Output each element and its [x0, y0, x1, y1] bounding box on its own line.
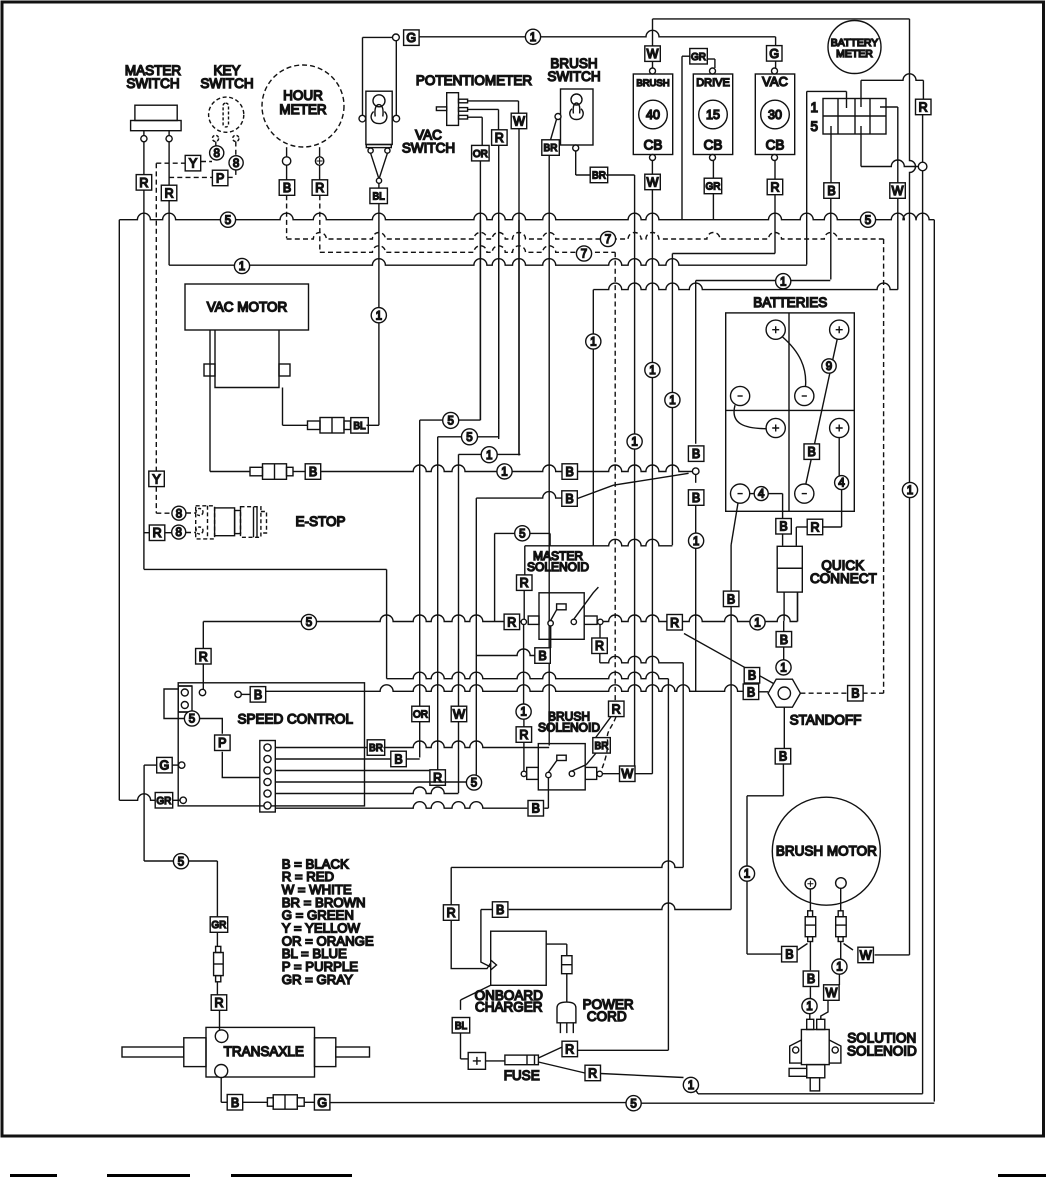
label R master left [136, 175, 152, 191]
wire G chain down to transaxle [143, 765, 145, 861]
circled 8 e-stop upper [172, 506, 186, 520]
label OR potentiometer [472, 145, 490, 161]
wire vac CB R down [774, 195, 776, 254]
label B standoff dashed [848, 686, 864, 702]
vac motor B wire [209, 330, 211, 472]
wire to G junction [363, 36, 393, 38]
svg-text:SOLENOID: SOLENOID [538, 721, 600, 735]
brush motor terminal plus [805, 878, 816, 889]
svg-text:B: B [808, 445, 816, 459]
battery series diagonal with 9 and B [806, 339, 837, 484]
label B master solenoid [535, 648, 551, 664]
label R right of master solenoid [667, 615, 683, 631]
svg-text:SOLENOID: SOLENOID [847, 1044, 917, 1059]
grid pin wire bottom cell 1 to B [830, 126, 832, 183]
speed control left jumper [164, 689, 184, 719]
brush solenoid terminal right [597, 771, 602, 776]
svg-text:R: R [507, 615, 516, 629]
junction circle B lines [692, 468, 699, 475]
label R below master solenoid [592, 638, 608, 654]
svg-text:R: R [588, 1066, 597, 1080]
grid pin wire top cell 4 to W [880, 106, 898, 108]
circled 1 quick connect line [750, 615, 765, 630]
svg-text:R: R [565, 1043, 574, 1057]
svg-text:HOUR: HOUR [283, 88, 323, 103]
label G speed control [157, 757, 173, 773]
transaxle terminal top [215, 1030, 228, 1043]
svg-text:7: 7 [605, 234, 611, 246]
svg-text:W: W [860, 949, 872, 963]
pin4 wire [275, 781, 467, 783]
battery jumper curve 2 [734, 405, 766, 429]
svg-text:CB: CB [766, 138, 785, 153]
wire W chain down to pin5 [458, 454, 460, 793]
wire battery B down to standoff line [695, 505, 697, 691]
master solenoid coil [557, 604, 567, 610]
circled 1 on battery B segment [776, 274, 791, 289]
wire W to solution solenoid [821, 1000, 828, 1019]
svg-text:4: 4 [838, 478, 845, 490]
label BR brush solenoid [593, 738, 611, 754]
label W below brush CB [645, 174, 661, 190]
hour meter terminal minus [282, 157, 290, 165]
inline connector vac motor B [250, 467, 263, 476]
label B lower line [562, 491, 578, 507]
svg-text:B: B [779, 520, 787, 534]
speed control R terminal [199, 689, 205, 695]
label Y key switch [185, 155, 201, 171]
dashed jog to terminal [601, 717, 616, 771]
svg-text:R: R [433, 771, 442, 785]
svg-text:1: 1 [806, 1001, 812, 1013]
pin3 wire [275, 770, 437, 772]
svg-text:30: 30 [768, 108, 782, 122]
inline connector transaxle [216, 946, 221, 952]
label R master solenoid left [504, 614, 519, 630]
hour meter terminal plus [315, 157, 323, 165]
label B solution feed [803, 971, 819, 987]
svg-text:R: R [495, 131, 504, 145]
svg-text:R: R [139, 176, 148, 190]
svg-text:40: 40 [646, 108, 660, 122]
svg-text:SWITCH: SWITCH [200, 76, 253, 91]
svg-text:TRANSAXLE: TRANSAXLE [224, 1044, 304, 1059]
wire brush CB W up [652, 19, 654, 46]
dashed wire to P box [228, 176, 236, 178]
svg-text:4: 4 [758, 489, 765, 501]
svg-text:R: R [519, 728, 528, 742]
master solenoid R lower chain [599, 625, 601, 640]
wire down to W box [897, 107, 899, 183]
label BL vac motor [351, 418, 369, 434]
wire B diagonal to junction [578, 473, 689, 498]
wire BL down to vac motor connector [378, 204, 380, 426]
dashed R line down to brush solenoid [614, 252, 616, 701]
svg-text:W: W [892, 184, 904, 198]
master solenoid B wire [550, 626, 552, 648]
label BR brush switch upper [542, 140, 560, 156]
R box above speed control [196, 649, 212, 665]
circled 5 on bus right [860, 212, 875, 227]
wire hour meter B [286, 165, 288, 180]
circled 1 on G line [525, 29, 540, 44]
label B standoff left [743, 684, 759, 700]
label BL vac switch [370, 188, 388, 204]
wire quick connect down [783, 621, 785, 632]
label W brush solenoid [620, 766, 636, 782]
label B hour meter [279, 180, 295, 196]
circled 1 solution feed right [832, 959, 847, 974]
wire BR2 to vertical [606, 174, 635, 176]
wire master left chain [144, 568, 387, 570]
svg-text:W: W [647, 176, 659, 190]
vac switch side terminal left [359, 115, 366, 122]
label B quick connect left [776, 519, 792, 535]
svg-text:BR: BR [369, 743, 383, 754]
circled 1 on R chain [665, 392, 680, 407]
label B below grid [824, 183, 840, 199]
label GR below drive CB [704, 178, 722, 194]
svg-text:B: B [748, 669, 756, 683]
wire master sol terminal down [523, 625, 525, 704]
standoff dashed right [800, 692, 848, 694]
grid pin wire to line-1 [846, 91, 848, 108]
wire master right to R box [168, 142, 170, 186]
svg-text:B: B [309, 465, 317, 479]
svg-text:1: 1 [669, 395, 675, 407]
circled 5 on solenoid line [301, 614, 316, 629]
wire hour meter R [319, 165, 321, 180]
svg-text:5: 5 [471, 778, 477, 790]
bus 5 left end down [118, 220, 120, 801]
wire G line down to G box [775, 37, 777, 46]
label B transaxle [227, 1095, 243, 1111]
svg-text:1: 1 [631, 437, 637, 449]
wire pot R down [498, 145, 500, 439]
svg-text:1: 1 [780, 276, 786, 288]
svg-text:B: B [231, 1096, 239, 1110]
svg-text:B: B [496, 903, 504, 917]
battery meter [828, 21, 881, 74]
vac switch side terminal right [393, 115, 400, 122]
junction circle G line [393, 34, 400, 41]
battery plus 4 chain right [838, 438, 840, 476]
speed control box [178, 683, 364, 806]
wire master left long down [143, 190, 145, 569]
circled 1 above standoff [776, 660, 791, 675]
svg-text:R: R [165, 187, 174, 201]
svg-text:B: B [566, 465, 574, 479]
wire pot OR down [479, 161, 481, 420]
label R top right [916, 99, 932, 115]
svg-text:B: B [851, 687, 859, 701]
svg-text:B: B [785, 948, 793, 962]
svg-text:W: W [453, 707, 466, 722]
line W from grid [593, 283, 898, 290]
transaxle body [206, 1027, 315, 1077]
junction circle right side [918, 162, 927, 171]
grid pin wire bottom cell 3 [860, 126, 862, 167]
svg-text:GR: GR [691, 52, 706, 63]
circled 7 on dashed B bus [600, 231, 615, 246]
svg-text:BRUSH MOTOR: BRUSH MOTOR [776, 844, 877, 859]
line R to master solenoid [525, 539, 673, 546]
svg-text:SWITCH: SWITCH [547, 69, 600, 84]
master switch terminal left [141, 136, 147, 142]
grid pin wire top cell 3 [860, 80, 862, 107]
circled 1 on BR2 wire [627, 434, 642, 449]
svg-text:B: B [780, 633, 788, 647]
plus box fuse [468, 1053, 485, 1070]
vac switch bottom terminal 1 [368, 148, 373, 153]
label W solution feed [824, 985, 840, 1001]
wire 8 down to P level [235, 170, 237, 178]
svg-text:B: B [727, 592, 735, 606]
svg-text:R: R [595, 639, 604, 653]
svg-text:SWITCH: SWITCH [126, 76, 179, 91]
label P speed control [215, 735, 231, 751]
brush solenoid armature [572, 765, 586, 771]
label GR speed control [155, 793, 173, 809]
speed control B terminal [235, 691, 241, 697]
svg-text:1: 1 [907, 485, 913, 497]
label W right side [890, 183, 906, 199]
svg-text:STANDOFF: STANDOFF [790, 713, 862, 728]
transaxle chain top [216, 861, 218, 916]
circled 1 brush motor B [739, 866, 754, 881]
brush switch terminal bottom [573, 145, 579, 151]
right vertical W line from top [910, 19, 916, 955]
svg-text:1: 1 [836, 962, 842, 974]
svg-text:B: B [827, 184, 835, 198]
wire R chain down [671, 254, 673, 546]
wire BR2 down lower [634, 449, 636, 774]
svg-text:R: R [153, 526, 162, 540]
wire pot W down [518, 129, 520, 456]
brush solenoid terminal left [521, 771, 526, 776]
inline connector vac motor BL [308, 421, 321, 430]
svg-text:9: 9 [826, 361, 832, 373]
diagonal brush feed to standoff [684, 634, 774, 684]
brush motor B down chain [809, 942, 811, 971]
circled 1 on right W line [902, 482, 917, 497]
svg-text:G: G [317, 1096, 327, 1110]
label W above speed control [451, 706, 467, 722]
svg-text:METER: METER [836, 48, 873, 60]
svg-text:1: 1 [486, 450, 492, 462]
svg-text:CHARGER: CHARGER [475, 1000, 543, 1015]
dashed wire Y left [156, 162, 185, 164]
svg-text:8: 8 [176, 508, 182, 520]
dashed hour meter R down [319, 195, 321, 252]
vac switch [366, 91, 392, 144]
svg-text:1: 1 [376, 310, 382, 322]
svg-text:SWITCH: SWITCH [402, 141, 455, 156]
svg-text:G: G [406, 31, 416, 45]
label R transaxle [211, 995, 227, 1011]
svg-text:1: 1 [754, 617, 760, 629]
dashed wire P left [169, 176, 213, 178]
label B below quick connect [776, 632, 792, 648]
svg-text:5: 5 [306, 617, 312, 629]
brush motor wire left [809, 889, 811, 911]
svg-text:1: 1 [501, 467, 507, 479]
svg-text:Y: Y [189, 157, 198, 171]
label R dashed chain [609, 701, 625, 717]
wire B chain down to pin4 [475, 498, 477, 775]
wire battery minus long down [730, 545, 732, 910]
label GR transaxle [210, 917, 228, 933]
standoff hexagon [768, 679, 800, 707]
svg-text:FUSE: FUSE [504, 1068, 540, 1083]
brush solenoid W chain [602, 773, 619, 775]
label R charger [443, 905, 459, 921]
label R above master solenoid [517, 575, 533, 591]
circled 1 on line 1 [234, 258, 249, 273]
wire grid pin to junction circle [861, 160, 918, 167]
svg-text:R: R [810, 521, 819, 535]
circled 5 pin4 [466, 775, 481, 790]
dashed hour meter B down [286, 195, 288, 238]
label R fuse lower [585, 1065, 601, 1081]
hour meter [262, 65, 344, 147]
master solenoid armature [574, 587, 599, 619]
circuit breaker VAC 30A CB [755, 74, 794, 155]
hour meter stub right [319, 147, 321, 158]
svg-text:B: B [565, 492, 573, 506]
speed control top pins [178, 686, 192, 712]
svg-text:1: 1 [530, 32, 536, 44]
label R below vac CB [767, 179, 783, 195]
wire P to pin block [222, 752, 259, 778]
label B battery minus chain [723, 591, 739, 607]
svg-text:R: R [315, 181, 324, 195]
svg-text:5: 5 [630, 1098, 636, 1110]
dashed B line down right side [883, 239, 885, 693]
svg-text:1: 1 [649, 365, 655, 377]
label B speed control pin2 [391, 751, 407, 767]
wire OR chain down [419, 420, 421, 757]
vac switch V wire right [379, 153, 387, 178]
line 1 battery B segment [696, 280, 831, 282]
line 1 (master right) [169, 259, 807, 266]
wire grid pin down to line-1 [806, 91, 808, 264]
svg-text:1: 1 [693, 536, 699, 548]
pin wire 1 BR [275, 747, 368, 749]
svg-text:B: B [538, 649, 546, 663]
svg-text:8: 8 [213, 148, 219, 160]
label BL charger [452, 1018, 470, 1034]
wire vac switch up right [395, 41, 397, 116]
svg-text:B: B [692, 491, 700, 505]
label R quick connect [807, 519, 823, 535]
fuse R wires [538, 1047, 562, 1058]
brush motor [772, 797, 880, 905]
charger R feed line [451, 861, 683, 867]
svg-text:BRUSH: BRUSH [636, 78, 669, 89]
dashed bus line R (hour meter) [320, 246, 615, 252]
onboard charger box [491, 931, 547, 985]
circled 1 battery B wire [689, 533, 704, 548]
wire BR2 down [634, 175, 636, 434]
brush switch terminal left [555, 114, 561, 120]
label B vac motor [305, 464, 321, 480]
svg-text:B: B [394, 753, 402, 767]
e-stop shell 3 [235, 511, 241, 534]
stair line R with circled 5 [498, 220, 500, 437]
master solenoid terminal right [598, 619, 603, 624]
svg-text:1: 1 [810, 100, 818, 115]
brush motor terminal minus [836, 878, 847, 889]
circled 5 on bus left [220, 212, 235, 227]
wire W chain down [592, 290, 594, 546]
wire vac CB R left [672, 253, 775, 255]
svg-text:VAC: VAC [762, 74, 788, 89]
bottom crop bars [10, 1174, 57, 1177]
svg-text:CORD: CORD [587, 1009, 627, 1024]
svg-text:G: G [160, 759, 170, 773]
svg-text:R: R [447, 906, 456, 920]
label R master right [161, 185, 177, 201]
svg-text:CONNECT: CONNECT [810, 571, 877, 586]
pot wire OR [468, 116, 483, 118]
svg-text:B: B [747, 685, 755, 699]
master solenoid out line right [603, 615, 667, 622]
vac motor [185, 284, 309, 330]
wire battery B up [695, 281, 697, 444]
svg-text:R: R [214, 996, 223, 1010]
wire master left to R box [143, 142, 145, 175]
svg-text:8: 8 [233, 158, 239, 170]
label B mid [562, 464, 578, 480]
svg-text:R: R [670, 616, 679, 630]
dashed wire 8 to Y [201, 161, 212, 163]
label B above junction [688, 446, 704, 462]
svg-text:GR: GR [706, 182, 721, 193]
line 5 to master solenoid [203, 615, 524, 622]
svg-text:B: B [532, 802, 540, 816]
solution solenoid ear right [829, 1040, 841, 1063]
brush motor W down chain [840, 942, 842, 960]
wire GR left down to bus [681, 56, 683, 220]
svg-text:1: 1 [688, 1080, 694, 1092]
circled 1 solution feed left [802, 999, 817, 1014]
svg-text:1: 1 [239, 261, 245, 273]
wire master right down to line-1 [168, 201, 170, 265]
wire drive CB GR down [712, 194, 714, 220]
e-stop shell 1 [196, 506, 215, 539]
label G transaxle [314, 1095, 330, 1111]
e-stop shell 2 [215, 508, 235, 536]
circled 8 key right [229, 156, 243, 170]
circuit breaker DRIVE 15A CB [693, 74, 732, 155]
svg-text:1: 1 [590, 337, 596, 349]
drive CB GR chain [690, 49, 708, 65]
svg-text:CB: CB [644, 138, 663, 153]
svg-text:5: 5 [466, 432, 472, 444]
label P key switch [212, 170, 228, 186]
vac CB G chain [767, 46, 783, 62]
vac switch V wire left [371, 153, 379, 178]
svg-text:BL: BL [372, 191, 385, 202]
circled 5 line upper [495, 532, 550, 534]
svg-text:B: B [692, 447, 700, 461]
stair line OR with circled 5 [479, 220, 481, 420]
svg-text:GR: GR [156, 796, 171, 807]
svg-text:G: G [769, 47, 779, 61]
svg-text:W: W [513, 115, 525, 129]
svg-text:1: 1 [780, 663, 786, 675]
